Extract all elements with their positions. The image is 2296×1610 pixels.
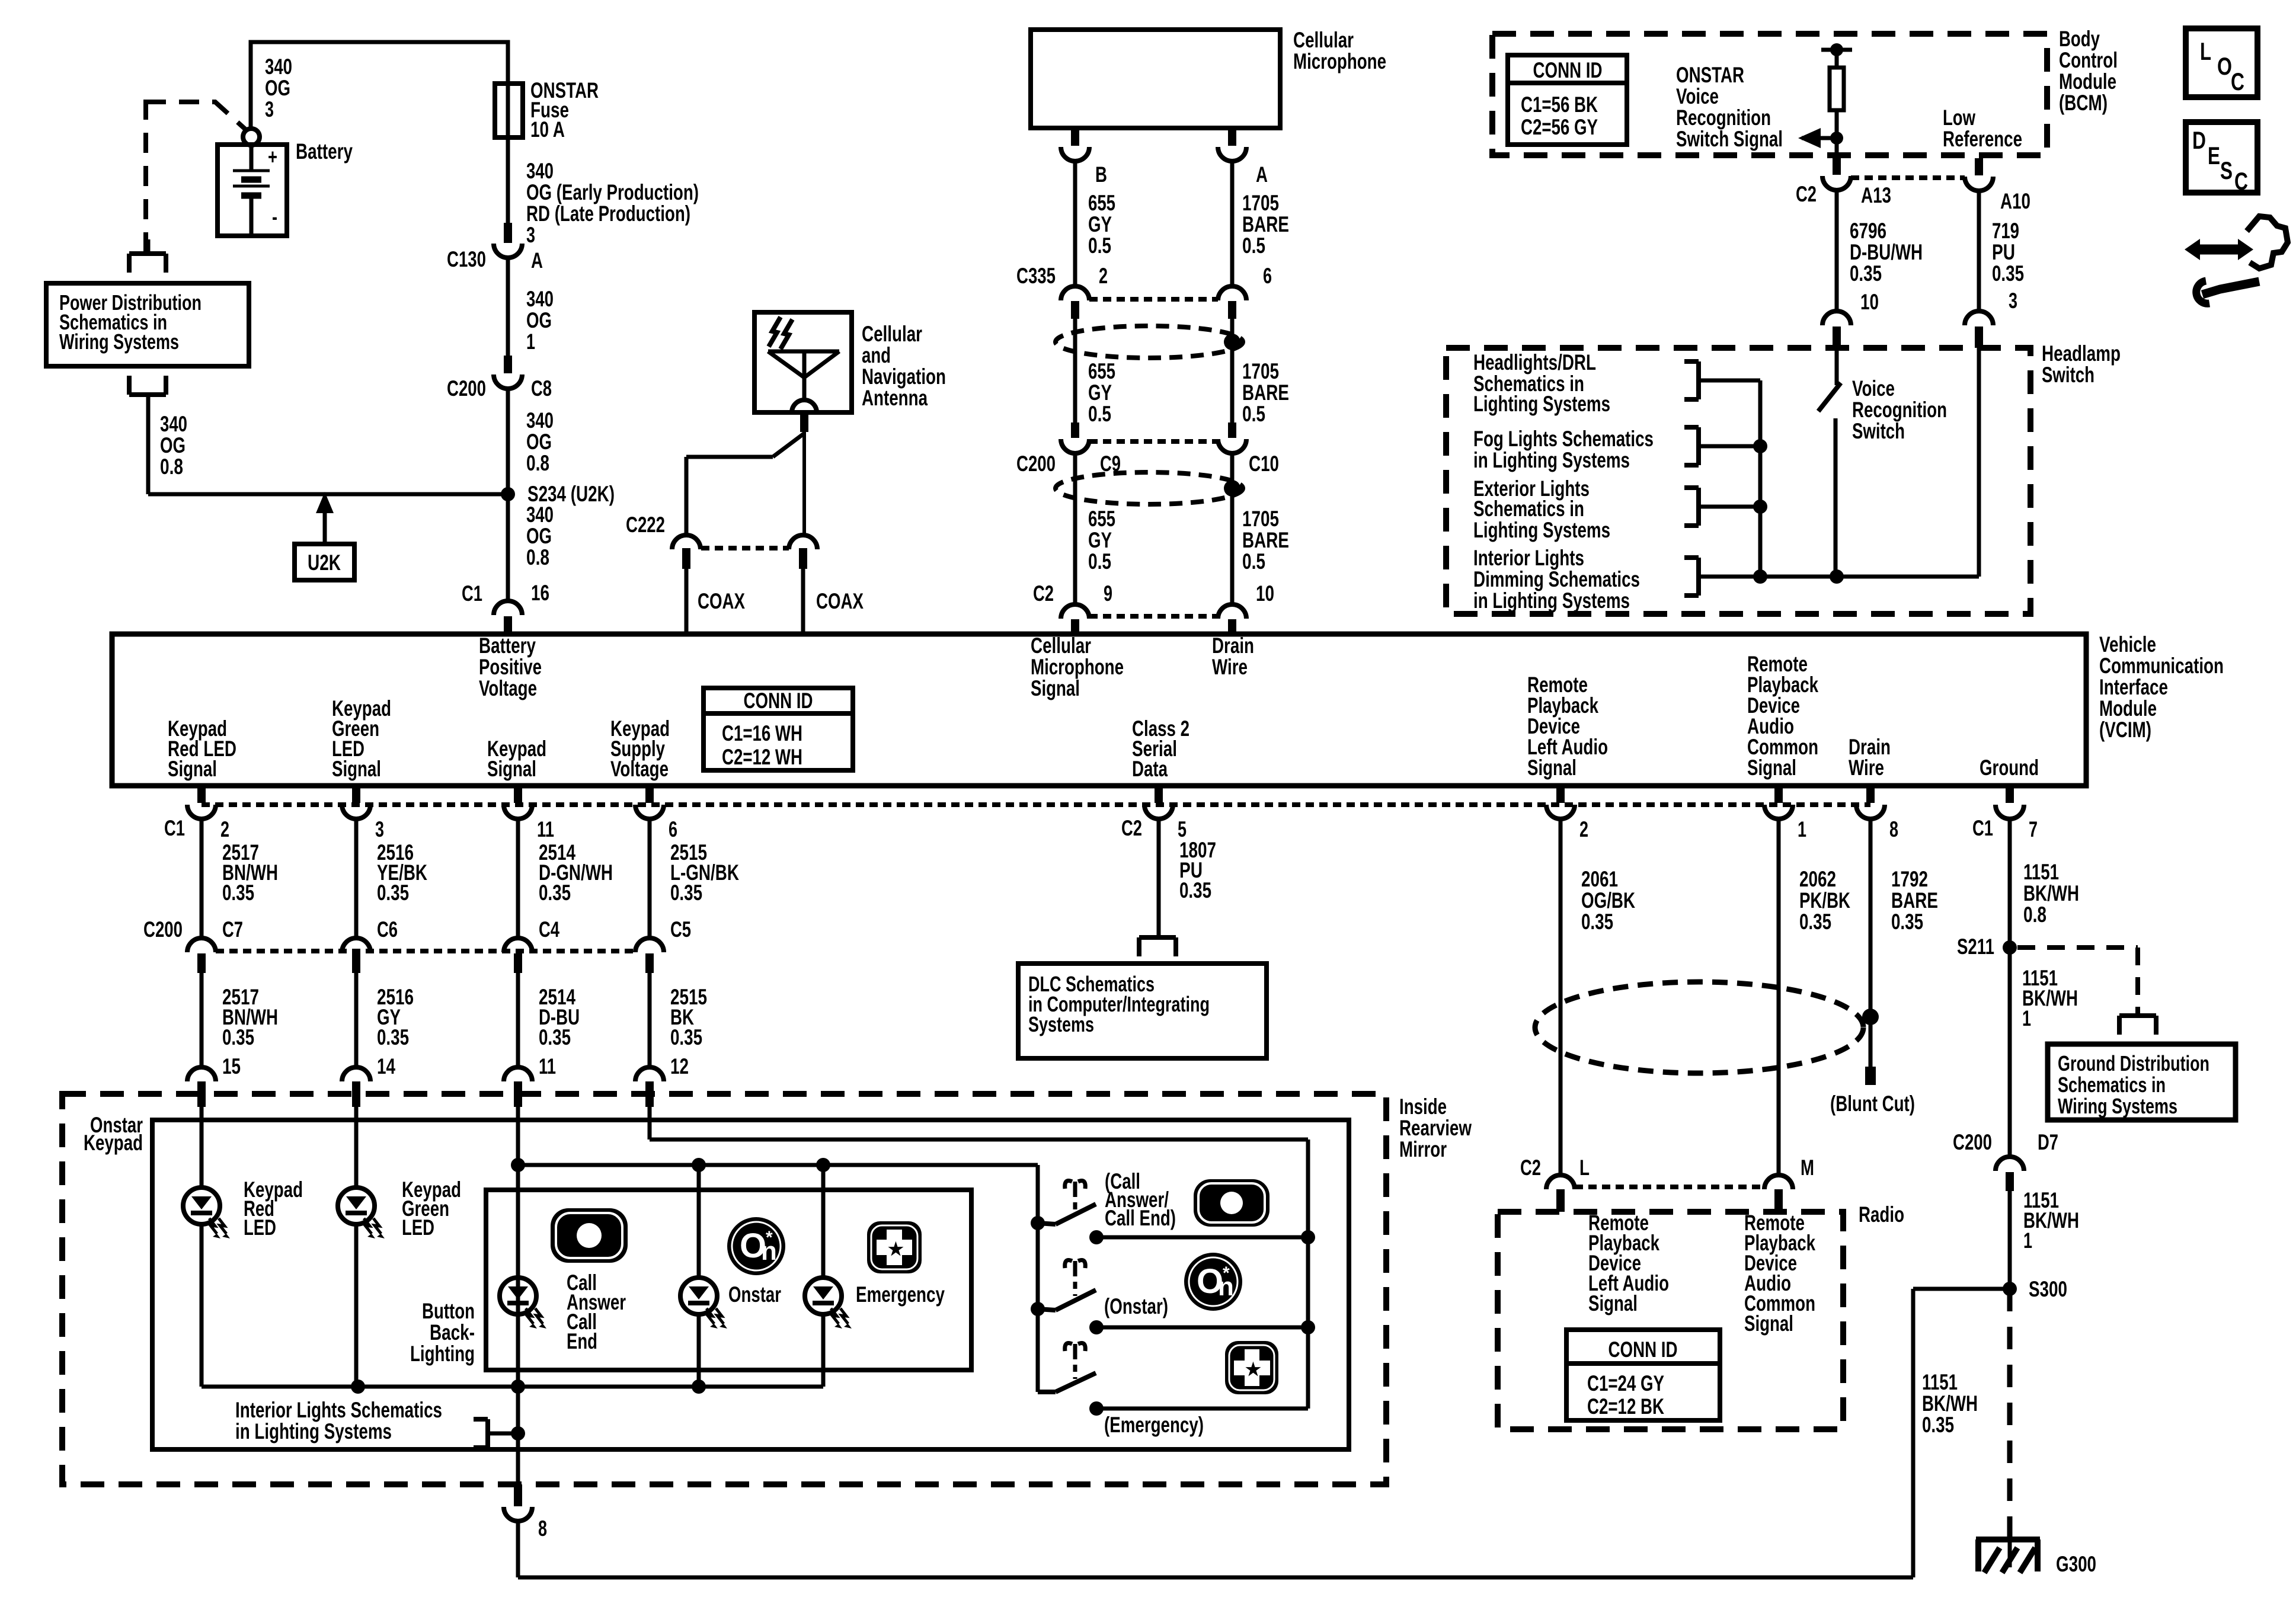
svg-text:10 A: 10 A	[530, 117, 565, 142]
svg-text:Lighting Systems: Lighting Systems	[1473, 518, 1610, 542]
svg-text:CONN ID: CONN ID	[1533, 58, 1603, 82]
svg-text:BARE: BARE	[1242, 212, 1289, 236]
box CONN ID BCM	[1508, 55, 1627, 145]
svg-text:0.5: 0.5	[1242, 402, 1265, 426]
box CONN ID radio	[1566, 1330, 1720, 1420]
svg-text:*: *	[1223, 1263, 1230, 1283]
svg-text:BARE: BARE	[1891, 888, 1938, 913]
VCIM label Keypad Signal	[487, 737, 546, 781]
svg-text:Signal: Signal	[487, 757, 536, 781]
wire keypad ground run	[518, 1289, 2010, 1577]
svg-text:655: 655	[1088, 359, 1115, 383]
svg-text:Signal: Signal	[1527, 756, 1576, 780]
dashed branch to battery positive	[146, 100, 246, 251]
svg-text:2: 2	[1579, 817, 1588, 841]
svg-text:A: A	[1256, 162, 1268, 187]
VCIM pin 11 keypad signal	[504, 786, 554, 841]
wire 1705 BARE b	[1230, 319, 1235, 422]
wire fuse to C130	[506, 137, 510, 223]
svg-text:2062: 2062	[1799, 867, 1836, 891]
DESC box	[2186, 122, 2257, 195]
svg-text:S300: S300	[2029, 1277, 2067, 1301]
svg-text:BK/WH: BK/WH	[2023, 881, 2079, 905]
svg-text:Data: Data	[1132, 757, 1168, 781]
svg-text:C2: C2	[1033, 581, 1054, 606]
svg-text:1792: 1792	[1891, 867, 1928, 891]
svg-text:S211: S211	[1957, 934, 1994, 959]
wire 2061 OG/BK 0.35	[1560, 818, 1635, 1175]
svg-text:C200: C200	[143, 917, 183, 942]
svg-text:Back-: Back-	[430, 1320, 475, 1345]
svg-text:Voice: Voice	[1676, 84, 1719, 108]
switch call answer	[1031, 1204, 1096, 1230]
wire keypad signal column	[516, 1107, 520, 1449]
svg-text:Interior Lights: Interior Lights	[1473, 546, 1584, 570]
svg-text:3: 3	[375, 817, 384, 841]
VCIM label Battery Positive Voltage	[479, 633, 542, 700]
switch emergency	[1038, 1373, 1096, 1392]
wire label 340 OG 3	[265, 55, 292, 121]
switch contact call answer row	[1089, 1230, 1315, 1244]
wire supply feed	[650, 1107, 1308, 1409]
wire label 6796 D-BU/WH 0.35	[1850, 219, 1923, 286]
svg-text:A13: A13	[1861, 183, 1891, 207]
svg-text:Lighting: Lighting	[410, 1342, 475, 1366]
wire label 655 GY 0.5 a	[1088, 191, 1115, 258]
bracket exterior	[1684, 488, 1699, 526]
svg-text:7: 7	[2029, 817, 2038, 841]
switch contact onstar row	[1089, 1320, 1315, 1334]
icon Onstar logo	[727, 1217, 785, 1275]
label Radio	[1859, 1202, 1904, 1227]
svg-text:CONN ID: CONN ID	[744, 689, 813, 713]
svg-text:C2=56 GY: C2=56 GY	[1521, 115, 1598, 139]
wire label 340 OG 0.8	[160, 412, 187, 479]
svg-text:340: 340	[526, 287, 554, 311]
svg-text:PK/BK: PK/BK	[1799, 888, 1850, 913]
wire low reference return	[1977, 348, 1981, 577]
VCIM pin 6 keypad supply voltage	[635, 786, 677, 841]
svg-text:★: ★	[1245, 1360, 1261, 1379]
svg-text:ONSTAR: ONSTAR	[1676, 63, 1744, 87]
wire interior bottom	[1699, 569, 1979, 584]
box Onstar Keypad	[152, 1120, 1349, 1449]
svg-text:0.35: 0.35	[1891, 910, 1923, 934]
svg-text:C6: C6	[377, 917, 398, 942]
svg-text:C2=12 WH: C2=12 WH	[722, 745, 802, 769]
svg-text:340: 340	[265, 55, 292, 79]
svg-text:0.35: 0.35	[670, 1025, 702, 1049]
twisted pair shield remote	[1535, 982, 1879, 1073]
radio label Remote Playback Audio Common	[1744, 1211, 1815, 1336]
svg-text:6796: 6796	[1850, 219, 1886, 243]
svg-text:0.5: 0.5	[1088, 233, 1111, 258]
svg-text:Voltage: Voltage	[610, 757, 669, 781]
connector C200 pin C8	[447, 356, 552, 401]
fuse ONSTAR Fuse 10A	[495, 84, 523, 137]
svg-text:Voice: Voice	[1852, 376, 1895, 401]
svg-text:Body: Body	[2059, 27, 2100, 51]
svg-text:D-BU/WH: D-BU/WH	[1850, 240, 1923, 264]
svg-text:Wire: Wire	[1849, 756, 1884, 780]
svg-text:Cellular: Cellular	[862, 322, 922, 346]
svg-text:Communication: Communication	[2099, 654, 2224, 678]
svg-text:0.5: 0.5	[1088, 549, 1111, 574]
svg-text:End: End	[567, 1329, 597, 1353]
svg-text:2061: 2061	[1581, 867, 1618, 891]
svg-text:11: 11	[537, 817, 554, 841]
splice S234	[501, 482, 615, 506]
VCIM pin 7 ground	[1972, 786, 2038, 841]
switch onstar	[1031, 1290, 1096, 1316]
svg-text:LED: LED	[402, 1215, 434, 1240]
wire label 340 OG 1	[526, 287, 554, 354]
svg-text:Call End): Call End)	[1105, 1206, 1176, 1230]
svg-text:A10: A10	[2000, 189, 2030, 213]
wire 2515 BK 0.35 lower	[650, 973, 707, 1078]
wire ground to S211	[2010, 818, 2079, 948]
svg-text:0.35: 0.35	[539, 881, 571, 905]
coax wires to VCIM	[686, 569, 803, 634]
svg-text:Ground: Ground	[1980, 756, 2039, 780]
label Body Control Module BCM	[2059, 27, 2118, 115]
headlamp pin 10	[1822, 290, 1879, 348]
label Voice Recognition Switch	[1852, 376, 1947, 443]
label Interior Lights Schematics keypad	[235, 1398, 442, 1443]
box Inside Rearview Mirror	[62, 1094, 1386, 1484]
keypad pin 8	[504, 1449, 547, 1577]
svg-text:Signal: Signal	[1588, 1291, 1638, 1315]
wire label 655 GY 0.5 b	[1088, 359, 1115, 426]
svg-text:0.35: 0.35	[539, 1025, 571, 1049]
svg-text:C4: C4	[539, 917, 559, 942]
icon onstar switch	[1184, 1253, 1242, 1311]
box Cellular and Navigation Antenna	[754, 312, 852, 412]
svg-text:655: 655	[1088, 191, 1115, 215]
VCIM label Drain Wire top	[1212, 633, 1254, 679]
label Headlights DRL Schematics	[1473, 350, 1610, 416]
label Emergency	[856, 1282, 945, 1307]
svg-text:3: 3	[2009, 289, 2017, 313]
svg-text:★: ★	[888, 1240, 904, 1259]
svg-text:Cellular: Cellular	[1031, 633, 1091, 658]
label Keypad Green LED	[402, 1177, 461, 1240]
svg-text:340: 340	[160, 412, 187, 436]
svg-text:OG (Early Production): OG (Early Production)	[526, 180, 699, 204]
VCIM label Cellular Microphone Signal	[1031, 633, 1124, 700]
svg-text:3: 3	[526, 223, 535, 247]
svg-text:0.35: 0.35	[1179, 878, 1211, 902]
label Exterior Lights Schematics	[1473, 476, 1610, 542]
svg-text:1705: 1705	[1242, 359, 1279, 383]
svg-text:(Blunt Cut): (Blunt Cut)	[1830, 1092, 1915, 1116]
VCIM label Keypad Red LED Signal	[168, 716, 236, 781]
antenna lead split	[686, 412, 808, 535]
svg-text:Signal: Signal	[1031, 676, 1080, 700]
label Cellular Microphone	[1293, 28, 1386, 73]
svg-text:Signal: Signal	[1744, 1311, 1793, 1336]
keypad pin 15	[187, 1067, 216, 1107]
wire 2062 PK/BK 0.35	[1779, 818, 1850, 1175]
keypad red LED	[183, 1188, 230, 1238]
svg-text:Low: Low	[1943, 105, 1975, 130]
connector C200 C6	[342, 917, 398, 973]
wire 2517 BN/WH 0.35 lower	[202, 973, 278, 1078]
svg-text:Microphone: Microphone	[1293, 49, 1386, 73]
keypad pin 11	[504, 1067, 532, 1107]
wire 6796 D-BU/WH	[1835, 190, 1839, 311]
switch contact emergency row	[1089, 1401, 1308, 1416]
svg-text:Headlamp: Headlamp	[2042, 341, 2121, 366]
svg-text:S: S	[2220, 156, 2233, 184]
svg-text:Voltage: Voltage	[479, 676, 537, 700]
wire label 340 OG 0.8 lower	[526, 502, 554, 569]
box Radio	[1498, 1212, 1843, 1429]
connector C200 C7	[143, 917, 243, 973]
antenna symbol	[768, 351, 839, 412]
wire label 1705 BARE 0.5 a	[1242, 191, 1289, 258]
svg-text:C335: C335	[1016, 264, 1056, 288]
svg-text:0.35: 0.35	[222, 1025, 254, 1049]
svg-text:LED: LED	[244, 1215, 276, 1240]
svg-text:C10: C10	[1249, 452, 1279, 476]
wire 655 GY mic	[1073, 161, 1077, 286]
backlight LED call answer	[500, 1278, 546, 1329]
svg-text:0.5: 0.5	[1242, 549, 1265, 574]
svg-text:G300: G300	[2056, 1552, 2096, 1576]
connector dashes L M	[1575, 1185, 1764, 1189]
svg-text:1705: 1705	[1242, 191, 1279, 215]
svg-text:Signal: Signal	[332, 757, 381, 781]
VCIM pin 2 remote left audio	[1546, 786, 1588, 841]
label Battery	[296, 139, 353, 164]
svg-text:C1: C1	[462, 581, 482, 606]
label Call Answer Call End switch	[1105, 1169, 1176, 1230]
connector C222	[626, 513, 817, 569]
svg-text:0.5: 0.5	[1242, 233, 1265, 258]
svg-text:Positive: Positive	[479, 655, 542, 679]
svg-text:0.35: 0.35	[1992, 261, 2024, 286]
blunt cut	[1830, 1067, 1915, 1116]
headlamp bus	[1758, 380, 1763, 577]
svg-text:BK/WH: BK/WH	[1922, 1391, 1978, 1416]
icon emergency switch	[1225, 1341, 1278, 1394]
off-page bracket DLC	[1139, 937, 1176, 956]
svg-text:Fog Lights Schematics: Fog Lights Schematics	[1473, 427, 1654, 451]
keypad pin 14	[342, 1067, 370, 1107]
svg-text:0.35: 0.35	[1581, 910, 1613, 934]
VCIM label Remote Playback Audio Common	[1747, 652, 1818, 780]
svg-text:8: 8	[538, 1516, 547, 1541]
bracket fog lights	[1684, 427, 1699, 465]
connector dashes A13 A10	[1851, 175, 1965, 180]
VCIM pin 5 class 2 serial data	[1121, 786, 1187, 841]
connector C200 D7	[1953, 1130, 2058, 1191]
twisted pair shield upper	[1056, 326, 1243, 358]
wire S211 to C200 D7	[2010, 948, 2078, 1157]
wire label 340 OG 0.8 upper	[526, 408, 554, 475]
svg-text:Lighting Systems: Lighting Systems	[1473, 392, 1610, 416]
svg-text:+: +	[268, 145, 277, 169]
svg-text:BARE: BARE	[1242, 380, 1289, 405]
box CONN ID VCIM	[703, 688, 853, 770]
svg-text:1: 1	[2022, 1006, 2031, 1030]
svg-text:Antenna: Antenna	[862, 386, 928, 410]
label Low Reference	[1943, 105, 2022, 151]
svg-text:9: 9	[1104, 581, 1112, 606]
battery positive terminal	[243, 129, 260, 145]
wire 2516 GY 0.35 lower	[356, 973, 414, 1078]
svg-text:GY: GY	[1088, 212, 1112, 236]
svg-text:Navigation: Navigation	[862, 364, 946, 389]
wire fog to bus	[1699, 439, 1767, 453]
svg-text:Emergency: Emergency	[856, 1282, 945, 1307]
label ONSTAR Voice Recognition Switch Signal	[1676, 63, 1783, 151]
wire 719 PU	[1977, 190, 1981, 311]
wire signal to switches	[511, 1158, 1038, 1392]
box Ground Distribution Schematics	[2048, 1044, 2236, 1120]
wire interior lights tap	[488, 1426, 525, 1441]
VCIM label Drain Wire bottom	[1849, 735, 1891, 780]
svg-text:C2: C2	[1520, 1156, 1541, 1180]
svg-text:GY: GY	[1088, 380, 1112, 405]
label Onstar Keypad	[84, 1113, 143, 1155]
wire 2517 BN/WH 0.35 upper	[202, 818, 278, 938]
wire 1705 BARE c	[1230, 453, 1235, 604]
svg-text:15: 15	[222, 1054, 241, 1078]
svg-text:1: 1	[1798, 817, 1806, 841]
svg-text:Battery: Battery	[296, 139, 353, 164]
svg-text:Interface: Interface	[2099, 675, 2168, 699]
wire label 1705 BARE 0.5 c	[1242, 507, 1289, 574]
bracket interior lights keypad	[474, 1419, 488, 1448]
mic pin A	[1218, 128, 1268, 187]
svg-text:340: 340	[526, 408, 554, 433]
wire label 1705 BARE 0.5 b	[1242, 359, 1289, 426]
svg-text:C200: C200	[447, 376, 486, 401]
svg-text:Wiring Systems: Wiring Systems	[59, 329, 179, 354]
box DLC Schematics	[1018, 964, 1267, 1058]
svg-text:Wiring Systems: Wiring Systems	[2058, 1094, 2177, 1118]
svg-text:C1=24 GY: C1=24 GY	[1587, 1371, 1664, 1395]
svg-text:340: 340	[526, 159, 554, 183]
connector C200 C5	[635, 917, 691, 973]
bracket headlights	[1684, 361, 1699, 399]
wire exterior to bus	[1699, 500, 1767, 514]
svg-text:RD (Late Production): RD (Late Production)	[526, 201, 690, 226]
backlight LED onstar	[680, 1278, 727, 1329]
resistor voice recognition pull-up	[1821, 43, 1852, 138]
svg-text:Switch Signal: Switch Signal	[1676, 127, 1783, 151]
wire 655 GY c	[1073, 453, 1077, 604]
svg-text:PU: PU	[1992, 240, 2015, 264]
svg-text:(Onstar): (Onstar)	[1104, 1294, 1168, 1318]
svg-text:0.35: 0.35	[377, 1025, 409, 1049]
svg-text:in Lighting Systems: in Lighting Systems	[1473, 588, 1630, 613]
wire 655 GY b	[1073, 319, 1077, 422]
svg-text:in Lighting Systems: in Lighting Systems	[235, 1419, 392, 1443]
svg-text:OG: OG	[526, 308, 552, 332]
box Cellular Microphone	[1031, 30, 1280, 128]
label Call Answer Call End	[567, 1270, 626, 1353]
label Emergency switch	[1104, 1413, 1204, 1437]
svg-text:340: 340	[526, 502, 554, 527]
label Onstar	[728, 1282, 781, 1307]
svg-text:D: D	[2192, 126, 2206, 154]
svg-text:0.8: 0.8	[2023, 902, 2046, 927]
svg-text:Rearview: Rearview	[1399, 1116, 1472, 1140]
twisted pair shield lower	[1056, 472, 1243, 504]
label Onstar switch	[1104, 1294, 1168, 1318]
voice recognition switch	[1818, 348, 1841, 577]
svg-text:14: 14	[377, 1054, 395, 1078]
keypad green LED	[338, 1188, 385, 1238]
wire C130 to C200	[506, 257, 510, 356]
VCIM pin dashed connector line	[202, 802, 1870, 807]
svg-text:OG: OG	[526, 524, 552, 548]
svg-text:0.8: 0.8	[160, 454, 183, 479]
svg-text:16: 16	[531, 581, 549, 605]
icon call end switch	[1194, 1179, 1269, 1227]
VCIM label Keypad Green LED Signal	[332, 696, 391, 781]
wire 1792 BARE 0.35	[1870, 818, 1938, 1067]
switch actuator emergency	[1065, 1343, 1086, 1379]
svg-text:Schematics in: Schematics in	[2058, 1073, 2166, 1097]
wire emergency backlight column	[821, 1165, 826, 1387]
svg-text:Control: Control	[2059, 48, 2118, 72]
svg-text:6: 6	[669, 817, 677, 841]
svg-text:2: 2	[220, 817, 229, 841]
svg-text:Onstar: Onstar	[728, 1282, 781, 1307]
svg-text:Module: Module	[2059, 69, 2116, 94]
svg-text:E: E	[2208, 142, 2220, 169]
svg-text:D7: D7	[2038, 1130, 2058, 1154]
svg-text:0.35: 0.35	[1799, 910, 1831, 934]
label Interior Lights Dimming	[1473, 546, 1640, 613]
switch actuator call answer	[1065, 1181, 1086, 1211]
svg-text:Recognition: Recognition	[1852, 398, 1947, 422]
svg-text:Wire: Wire	[1212, 655, 1248, 679]
label Fog Lights Schematics	[1473, 427, 1654, 472]
svg-text:0.35: 0.35	[222, 881, 254, 905]
svg-text:Switch: Switch	[1852, 419, 1905, 443]
svg-text:Interior Lights Schematics: Interior Lights Schematics	[235, 1398, 442, 1422]
svg-text:11: 11	[539, 1054, 556, 1078]
svg-text:(Emergency): (Emergency)	[1104, 1413, 1204, 1437]
radio pin C2 L	[1520, 1156, 1590, 1212]
svg-text:-: -	[272, 204, 277, 229]
svg-text:C2=12 BK: C2=12 BK	[1587, 1394, 1664, 1419]
svg-text:0.35: 0.35	[377, 881, 409, 905]
ground G300	[1976, 1539, 2096, 1576]
svg-text:OG: OG	[526, 430, 552, 454]
svg-text:C2: C2	[1121, 816, 1142, 840]
wire label 655 GY 0.5 c	[1088, 507, 1115, 574]
wire headlights to bus	[1699, 379, 1760, 383]
battery B+	[218, 145, 287, 236]
svg-text:O: O	[2217, 52, 2232, 80]
svg-text:C200: C200	[1953, 1130, 1992, 1154]
wire 2514 D-GN/WH 0.35 upper	[518, 818, 613, 938]
LOC box	[2186, 28, 2257, 97]
box Power Distribution Schematics in Wiring Systems	[46, 283, 249, 366]
svg-text:0.8: 0.8	[526, 451, 549, 475]
svg-text:BARE: BARE	[1242, 528, 1289, 552]
svg-text:OG: OG	[160, 433, 186, 457]
headlamp pin 3	[1965, 289, 2017, 348]
svg-text:C130: C130	[447, 247, 486, 271]
radio pin M	[1764, 1156, 1814, 1212]
